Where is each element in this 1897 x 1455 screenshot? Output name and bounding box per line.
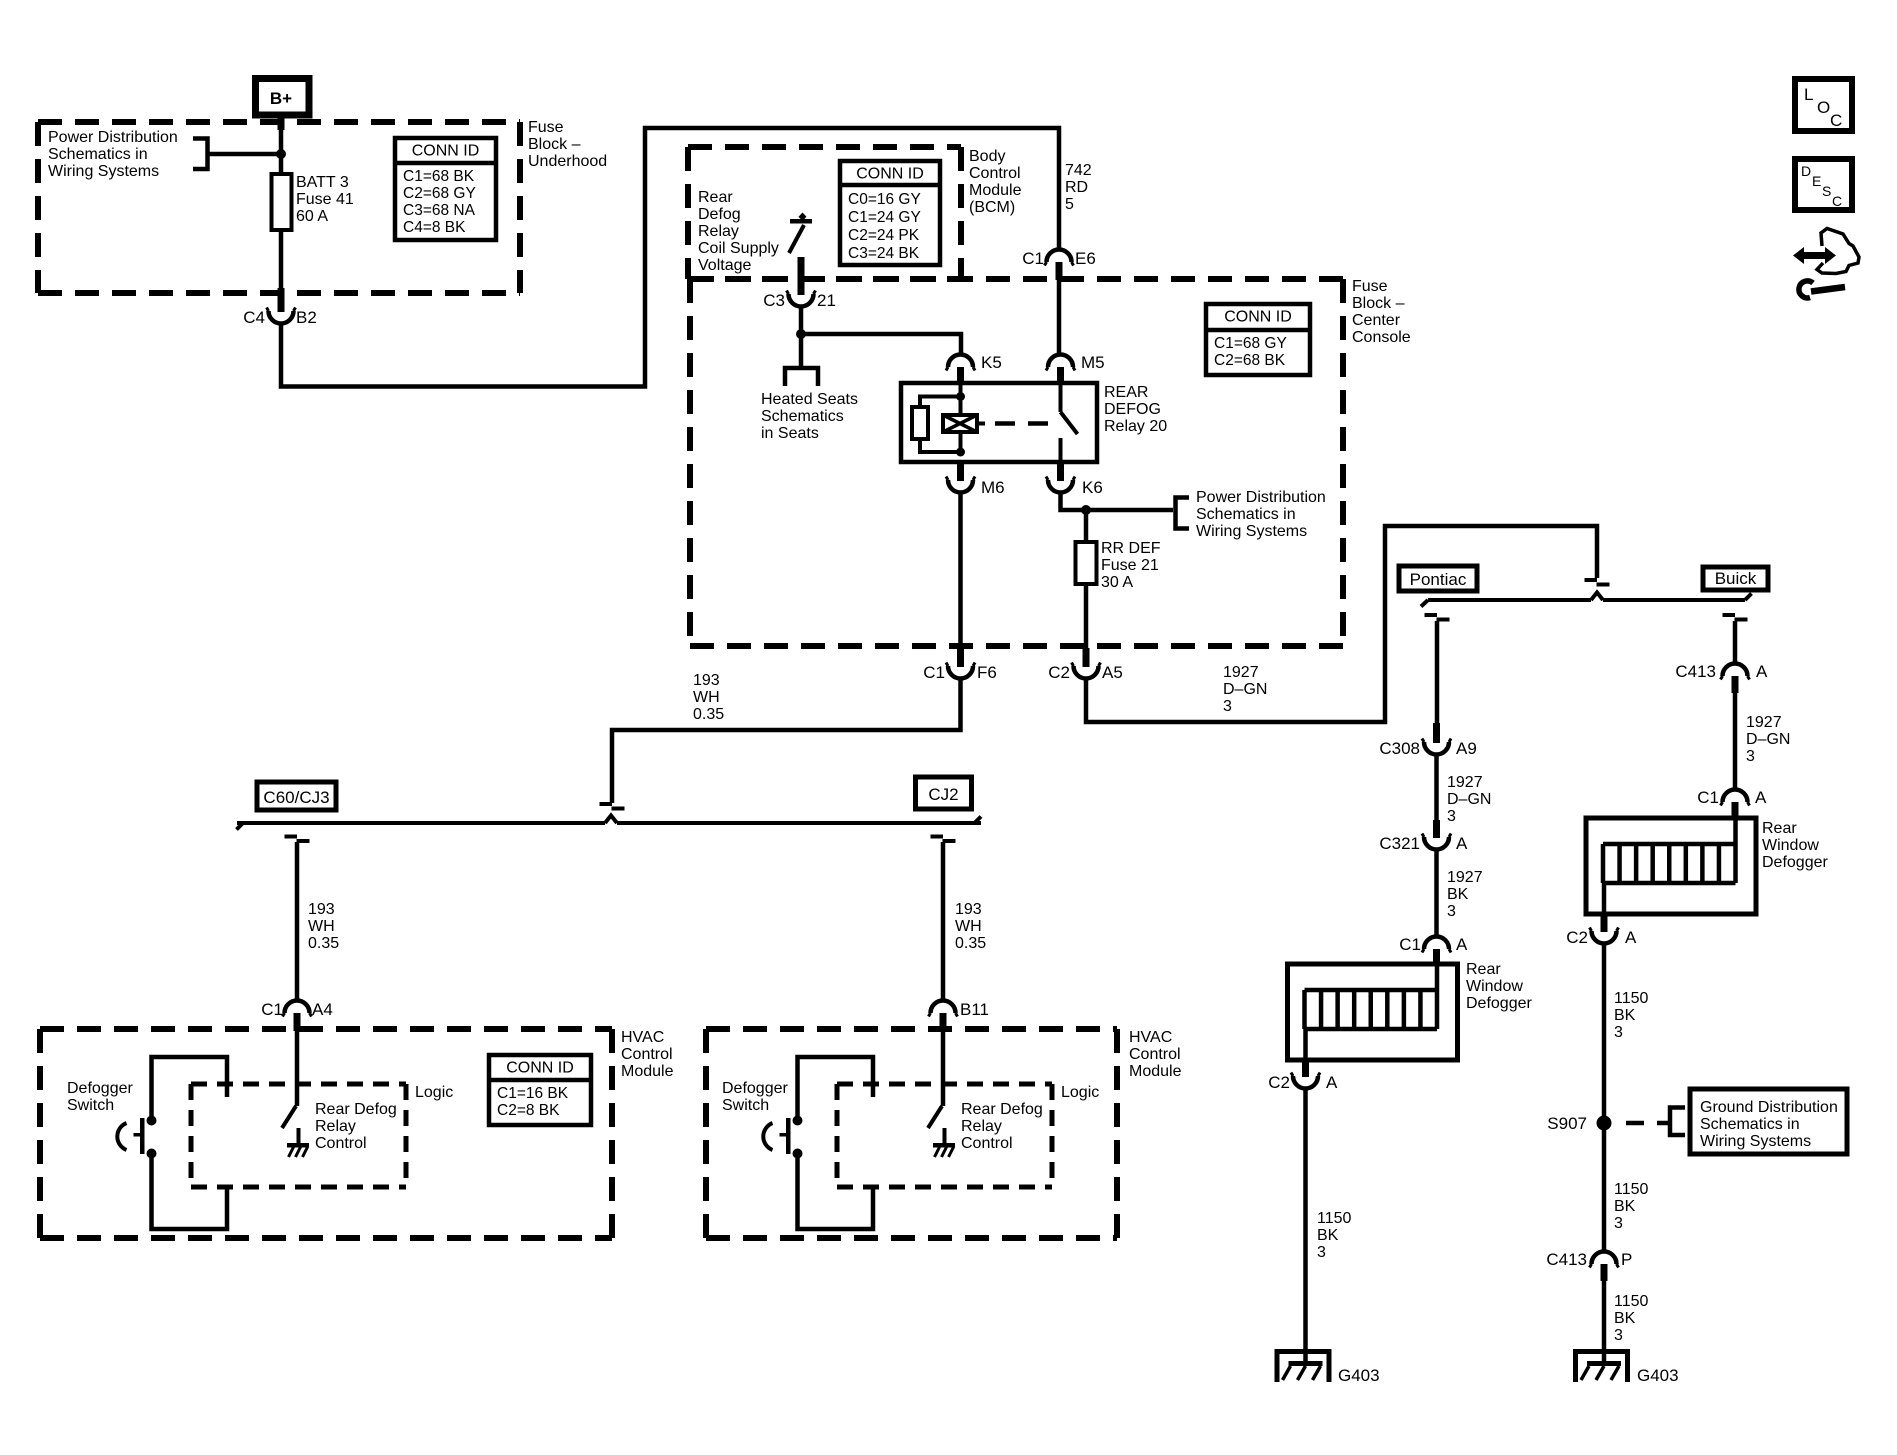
svg-text:CONN ID: CONN ID <box>856 166 924 183</box>
wire end hook at Buick drop <box>1723 613 1736 617</box>
svg-text:A4: A4 <box>312 1000 333 1019</box>
svg-text:B2: B2 <box>296 308 317 327</box>
svg-text:3: 3 <box>1223 698 1232 715</box>
svg-text:60 A: 60 A <box>296 208 328 225</box>
icon panel outline <box>1817 229 1859 274</box>
svg-text:Module: Module <box>1129 1063 1182 1080</box>
svg-text:Wiring Systems: Wiring Systems <box>1700 1133 1811 1150</box>
svg-text:C413: C413 <box>1546 1250 1587 1269</box>
defogger switch lower contact <box>793 1149 803 1159</box>
svg-text:Schematics in: Schematics in <box>48 146 148 163</box>
conn id table underhood <box>395 138 496 240</box>
wire switch upper loop <box>152 1057 228 1116</box>
wire fuse to connector C4 <box>279 228 284 290</box>
svg-text:E6: E6 <box>1075 249 1096 268</box>
reference bracket (open left) <box>193 139 208 170</box>
reference bracket heated seats (open down) <box>785 368 818 386</box>
svg-text:A9: A9 <box>1456 739 1477 758</box>
wire switch lower loop <box>798 1158 874 1229</box>
svg-text:Defogger: Defogger <box>67 1080 133 1097</box>
wire C2 to S907 <box>1602 942 1607 1253</box>
connector C1/F6 <box>923 648 997 682</box>
svg-text:C2=8 BK: C2=8 BK <box>497 1102 560 1119</box>
svg-text:HVAC: HVAC <box>621 1029 664 1046</box>
svg-text:3: 3 <box>1447 903 1456 920</box>
svg-text:Rear Defog: Rear Defog <box>961 1101 1043 1118</box>
svg-text:C1: C1 <box>1022 249 1044 268</box>
connector C1/A (Pontiac defogger) <box>1399 935 1468 965</box>
svg-text:A: A <box>1755 788 1767 807</box>
connector C308/A9 <box>1379 723 1476 758</box>
svg-text:S907: S907 <box>1547 1114 1587 1133</box>
svg-text:0.35: 0.35 <box>308 935 339 952</box>
svg-text:C321: C321 <box>1379 834 1420 853</box>
svg-text:Pontiac: Pontiac <box>1410 570 1467 589</box>
brace Pontiac/Buick <box>1428 598 1591 602</box>
reference box Ground Distribution Schematics in Wiring Systems <box>1690 1089 1847 1154</box>
svg-text:HVAC: HVAC <box>1129 1029 1172 1046</box>
wire end hook at Pontiac drop <box>1425 613 1438 617</box>
svg-text:C1=16 BK: C1=16 BK <box>497 1085 569 1102</box>
svg-text:0.35: 0.35 <box>693 706 724 723</box>
icon box LOC <box>1795 79 1852 131</box>
svg-text:D–GN: D–GN <box>1447 791 1491 808</box>
svg-text:3: 3 <box>1746 748 1755 765</box>
svg-text:C3: C3 <box>763 291 785 310</box>
wire end hook at CJ2 drop <box>931 835 944 839</box>
svg-text:1150: 1150 <box>1614 1293 1649 1310</box>
svg-text:G403: G403 <box>1338 1366 1380 1385</box>
wire C321 to C1 <box>1434 848 1439 938</box>
svg-text:Control: Control <box>621 1046 673 1063</box>
switch blade rear defog relay control <box>928 1106 942 1128</box>
svg-text:0.35: 0.35 <box>955 935 986 952</box>
svg-text:Wiring Systems: Wiring Systems <box>48 163 159 180</box>
splice bus line <box>237 821 605 825</box>
svg-text:C: C <box>1830 111 1842 130</box>
svg-text:193: 193 <box>955 901 982 918</box>
svg-text:Switch: Switch <box>722 1097 769 1114</box>
svg-text:F6: F6 <box>977 663 997 682</box>
svg-text:1927: 1927 <box>1746 714 1782 731</box>
wire C2 to G403 (Pontiac) <box>1303 1087 1308 1351</box>
wire Buick drop to C413 <box>1733 621 1738 665</box>
svg-text:Fuse 21: Fuse 21 <box>1101 557 1159 574</box>
svg-text:3: 3 <box>1317 1244 1326 1261</box>
svg-text:Defogger: Defogger <box>722 1080 788 1097</box>
svg-text:Window: Window <box>1762 837 1819 854</box>
defogger switch upper contact <box>793 1116 803 1126</box>
relay coil top junction <box>956 392 965 401</box>
svg-text:Block –: Block – <box>1352 295 1405 312</box>
svg-text:A5: A5 <box>1102 663 1123 682</box>
connector K5 <box>946 353 1002 384</box>
relay contact from M5 <box>1059 383 1063 412</box>
svg-text:Defogger: Defogger <box>1762 854 1828 871</box>
svg-text:G403: G403 <box>1637 1366 1679 1385</box>
svg-text:C0=16 GY: C0=16 GY <box>848 191 921 208</box>
svg-text:C2: C2 <box>1048 663 1070 682</box>
rear window defogger (Pontiac) <box>1288 964 1458 1060</box>
svg-text:C2: C2 <box>1566 928 1588 947</box>
ground G403 (Buick) <box>1573 1349 1679 1385</box>
conn id table center console <box>1206 304 1310 375</box>
svg-text:BK: BK <box>1614 1007 1636 1024</box>
svg-text:DEFOG: DEFOG <box>1104 401 1161 418</box>
svg-text:P: P <box>1621 1250 1632 1269</box>
svg-text:21: 21 <box>817 291 836 310</box>
svg-text:Coil Supply: Coil Supply <box>698 240 779 257</box>
svg-text:1927: 1927 <box>1447 774 1483 791</box>
svg-text:Ground Distribution: Ground Distribution <box>1700 1099 1838 1116</box>
svg-text:BATT 3: BATT 3 <box>296 174 349 191</box>
svg-text:C2=68 BK: C2=68 BK <box>1214 352 1286 369</box>
svg-text:BK: BK <box>1614 1310 1636 1327</box>
svg-text:M6: M6 <box>981 478 1005 497</box>
wire Pontiac drop to C308 <box>1435 621 1440 724</box>
relay coil vertical through crossed box <box>959 397 963 417</box>
reference bracket ground distribution (open right) <box>1670 1108 1685 1136</box>
svg-text:193: 193 <box>693 672 720 689</box>
svg-text:B+: B+ <box>270 89 292 108</box>
svg-text:C3=68 NA: C3=68 NA <box>403 202 476 219</box>
conn id table BCM <box>840 161 940 265</box>
svg-text:Relay 20: Relay 20 <box>1104 418 1167 435</box>
svg-text:C1: C1 <box>261 1000 283 1019</box>
svg-text:D–GN: D–GN <box>1223 681 1267 698</box>
defogger switch lower contact <box>147 1149 157 1159</box>
connector C1/A4 <box>261 1000 333 1031</box>
switch rear defog relay coil supply (BCM driver) <box>789 213 812 254</box>
defogger switch button actuator <box>763 1118 790 1154</box>
svg-text:Switch: Switch <box>67 1097 114 1114</box>
label box Pontiac <box>1399 566 1477 591</box>
svg-text:Relay: Relay <box>315 1118 356 1135</box>
svg-text:Fuse: Fuse <box>1352 278 1388 295</box>
wire B2 to BCM feed (742 route) <box>281 128 1059 387</box>
svg-text:1150: 1150 <box>1614 1181 1649 1198</box>
wire drop CJ2 to B11 <box>941 842 946 1002</box>
wire K6 to junction <box>1061 491 1087 510</box>
svg-text:O: O <box>1817 98 1830 117</box>
relay coil bottom junction <box>956 448 965 457</box>
reference bracket power distribution (open right) <box>1176 498 1190 529</box>
svg-text:C1: C1 <box>1697 788 1719 807</box>
rear window defogger (Buick) <box>1586 818 1756 914</box>
dashed box Fuse Block - Center Console <box>690 276 1343 282</box>
svg-text:C1: C1 <box>1399 935 1421 954</box>
connector C413/A <box>1675 662 1768 693</box>
svg-text:RD: RD <box>1065 179 1088 196</box>
svg-text:Power Distribution: Power Distribution <box>1196 489 1326 506</box>
svg-text:Heated Seats: Heated Seats <box>761 391 858 408</box>
relay actuator dashed link <box>977 422 985 426</box>
chassis ground in logic box <box>943 1128 947 1145</box>
svg-text:742: 742 <box>1065 162 1092 179</box>
relay box REAR DEFOG Relay 20 <box>901 383 1097 462</box>
connector C413/P <box>1546 1250 1632 1281</box>
svg-text:Schematics: Schematics <box>761 408 844 425</box>
relay crossed coil box <box>943 415 977 432</box>
chassis ground in logic box <box>297 1128 301 1145</box>
svg-text:BK: BK <box>1447 886 1469 903</box>
connector C2/A (Pontiac defogger) <box>1268 1060 1338 1092</box>
dashed link S907 to reference <box>1626 1121 1668 1126</box>
svg-text:Defogger: Defogger <box>1466 995 1532 1012</box>
svg-text:C1: C1 <box>923 663 945 682</box>
relay contact blade <box>1061 412 1078 434</box>
wire fuse to C2/A5 <box>1084 583 1089 649</box>
svg-text:K5: K5 <box>981 353 1002 372</box>
svg-text:REAR: REAR <box>1104 384 1148 401</box>
svg-text:Relay: Relay <box>698 223 739 240</box>
svg-text:Body: Body <box>969 148 1005 165</box>
svg-text:Control: Control <box>315 1135 367 1152</box>
svg-text:Fuse: Fuse <box>528 119 564 136</box>
wire junction to fuse RR DEF <box>1084 510 1089 543</box>
svg-text:S: S <box>1822 183 1831 199</box>
svg-text:C2: C2 <box>1268 1073 1290 1092</box>
wire junction to reference bracket <box>1086 508 1173 513</box>
svg-text:Rear Defog: Rear Defog <box>315 1101 397 1118</box>
svg-text:E: E <box>1812 173 1821 189</box>
connector M6 <box>946 462 1005 497</box>
svg-text:3: 3 <box>1614 1327 1623 1344</box>
svg-text:B11: B11 <box>960 1000 989 1019</box>
wire C308 to C321 <box>1434 753 1439 821</box>
svg-text:L: L <box>1804 85 1813 104</box>
svg-text:A: A <box>1326 1073 1338 1092</box>
svg-text:Schematics in: Schematics in <box>1196 506 1296 523</box>
wire C3 to junction <box>799 305 804 334</box>
fuse RR DEF Fuse 21 30A <box>1076 542 1097 584</box>
svg-text:K6: K6 <box>1082 478 1103 497</box>
connector C2/A (Buick defogger) <box>1566 915 1637 947</box>
svg-text:WH: WH <box>308 918 335 935</box>
svg-text:Window: Window <box>1466 978 1523 995</box>
dashed box Logic (left) <box>191 1082 406 1087</box>
svg-text:(BCM): (BCM) <box>969 199 1015 216</box>
svg-text:C: C <box>1832 193 1842 209</box>
svg-text:BK: BK <box>1317 1227 1339 1244</box>
svg-text:in Seats: in Seats <box>761 425 819 442</box>
svg-text:Control: Control <box>961 1135 1013 1152</box>
svg-text:Rear: Rear <box>698 189 733 206</box>
svg-text:1150: 1150 <box>1317 1210 1352 1227</box>
svg-text:C308: C308 <box>1379 739 1420 758</box>
wire bracket to B+ feed <box>208 152 282 157</box>
relay coil left branch <box>920 397 961 409</box>
icon box DESC <box>1795 159 1852 210</box>
power symbol B+ <box>256 79 310 116</box>
icon double arrow <box>1793 247 1836 264</box>
svg-text:C1=24 GY: C1=24 GY <box>848 209 921 226</box>
svg-text:A: A <box>1456 834 1468 853</box>
svg-text:C1=68 GY: C1=68 GY <box>1214 335 1287 352</box>
svg-text:Fuse 41: Fuse 41 <box>296 191 354 208</box>
label box Buick <box>1703 567 1768 590</box>
splice S907 <box>1547 1114 1611 1133</box>
svg-text:C2=68 GY: C2=68 GY <box>403 185 476 202</box>
dashed box Fuse Block - Underhood <box>38 119 520 125</box>
node junction on B+ wire <box>276 149 286 159</box>
svg-text:Power Distribution: Power Distribution <box>48 129 178 146</box>
svg-text:Center: Center <box>1352 312 1401 329</box>
wire junction to heated seats <box>799 334 804 366</box>
svg-text:C4=8 BK: C4=8 BK <box>403 219 466 236</box>
svg-text:Logic: Logic <box>1061 1084 1099 1101</box>
svg-text:Defog: Defog <box>698 206 741 223</box>
svg-text:1927: 1927 <box>1223 664 1259 681</box>
label box C60/CJ3 <box>257 782 336 810</box>
fuse BATT 3 Fuse 41 60A <box>272 174 292 230</box>
connector C1/A (Buick defogger) <box>1697 788 1767 818</box>
connector K6 <box>1046 462 1103 497</box>
node junction at C3 <box>796 329 806 339</box>
wire switch lower loop <box>152 1158 228 1229</box>
connector C4/B2 <box>243 288 317 327</box>
wire drop C60/CJ3 to C1/A4 <box>295 842 300 1002</box>
wire F6 to splice bus <box>612 677 961 803</box>
svg-text:Buick: Buick <box>1715 569 1757 588</box>
wire switch upper loop <box>798 1057 874 1116</box>
icon wrench <box>1799 281 1813 298</box>
svg-text:Module: Module <box>621 1063 674 1080</box>
svg-text:RR DEF: RR DEF <box>1101 540 1161 557</box>
wire B+ down to fuse <box>279 115 284 176</box>
svg-text:Wiring Systems: Wiring Systems <box>1196 523 1307 540</box>
defogger switch upper contact <box>147 1116 157 1126</box>
svg-text:Module: Module <box>969 182 1022 199</box>
svg-text:3: 3 <box>1614 1024 1623 1041</box>
svg-text:Block –: Block – <box>528 136 581 153</box>
wire end hook at brace feed <box>1585 578 1598 582</box>
dashed box Body Control Module <box>688 144 961 150</box>
dashed box HVAC Control Module (middle) <box>706 1026 1117 1032</box>
svg-text:3: 3 <box>1447 808 1456 825</box>
connector C1/E6 <box>1022 249 1096 280</box>
dashed box HVAC Control Module (left) <box>40 1026 612 1032</box>
wire relay control into logic <box>295 1031 300 1106</box>
wire relay control into logic <box>941 1031 946 1106</box>
wire C413/P to G403 <box>1602 1280 1607 1351</box>
wire E6 to M5 <box>1057 280 1062 356</box>
svg-text:A: A <box>1625 928 1637 947</box>
svg-text:CJ2: CJ2 <box>928 785 958 804</box>
stub B+ through box edge <box>278 113 285 130</box>
conn id table HVAC (left) <box>489 1055 591 1125</box>
svg-text:Control: Control <box>969 165 1021 182</box>
node junction at K6/fuse <box>1081 505 1091 515</box>
connector B11 <box>929 1000 990 1031</box>
svg-text:D: D <box>1801 163 1811 179</box>
connector C2/A5 <box>1048 648 1123 682</box>
svg-text:C60/CJ3: C60/CJ3 <box>263 788 329 807</box>
connector C321/A <box>1379 820 1468 853</box>
svg-text:D–GN: D–GN <box>1746 731 1790 748</box>
wire M6 to C1/F6 <box>958 491 963 649</box>
relay coil resistor <box>912 407 928 439</box>
svg-text:1150: 1150 <box>1614 990 1649 1007</box>
svg-text:193: 193 <box>308 901 335 918</box>
svg-text:Logic: Logic <box>415 1084 453 1101</box>
svg-text:BK: BK <box>1614 1198 1636 1215</box>
wire C413 to C1 (Buick) <box>1733 692 1738 791</box>
svg-text:CONN ID: CONN ID <box>506 1060 574 1077</box>
svg-text:Voltage: Voltage <box>698 257 751 274</box>
relay coil wire from K5 <box>959 383 963 397</box>
switch blade rear defog relay control <box>282 1106 296 1128</box>
svg-text:A: A <box>1756 662 1768 681</box>
svg-text:C3=24 BK: C3=24 BK <box>848 245 920 262</box>
wire end hook at bus feed <box>600 802 613 806</box>
connector C3/21 <box>763 259 836 310</box>
svg-text:C1=68 BK: C1=68 BK <box>403 168 475 185</box>
svg-text:WH: WH <box>693 689 720 706</box>
svg-text:CONN ID: CONN ID <box>1224 309 1292 326</box>
svg-text:CONN ID: CONN ID <box>412 143 480 160</box>
dashed box Logic (middle) <box>837 1082 1052 1087</box>
ground G403 (Pontiac) <box>1275 1349 1380 1385</box>
svg-text:WH: WH <box>955 918 982 935</box>
defogger switch button actuator <box>117 1118 144 1154</box>
svg-text:C2=24 PK: C2=24 PK <box>848 227 920 244</box>
svg-text:Schematics in: Schematics in <box>1700 1116 1800 1133</box>
connector M5 <box>1046 353 1105 384</box>
label box CJ2 <box>916 777 972 809</box>
svg-text:Underhood: Underhood <box>528 153 607 170</box>
svg-text:C4: C4 <box>243 308 265 327</box>
wire driver to C3 <box>798 257 805 294</box>
svg-text:A: A <box>1456 935 1468 954</box>
svg-text:30 A: 30 A <box>1101 574 1133 591</box>
wire junction to K5 <box>801 334 961 356</box>
svg-text:Rear: Rear <box>1762 820 1797 837</box>
svg-text:3: 3 <box>1614 1215 1623 1232</box>
svg-text:C413: C413 <box>1675 662 1716 681</box>
wire A5 to brace feed <box>1086 526 1597 722</box>
wire end hook at C60/CJ3 drop <box>285 835 298 839</box>
svg-text:Rear: Rear <box>1466 961 1501 978</box>
svg-text:Console: Console <box>1352 329 1411 346</box>
svg-text:1927: 1927 <box>1447 869 1483 886</box>
relay contact to K6 <box>1059 438 1063 462</box>
svg-text:Relay: Relay <box>961 1118 1002 1135</box>
svg-text:M5: M5 <box>1081 353 1105 372</box>
svg-text:5: 5 <box>1065 196 1074 213</box>
svg-text:Control: Control <box>1129 1046 1181 1063</box>
